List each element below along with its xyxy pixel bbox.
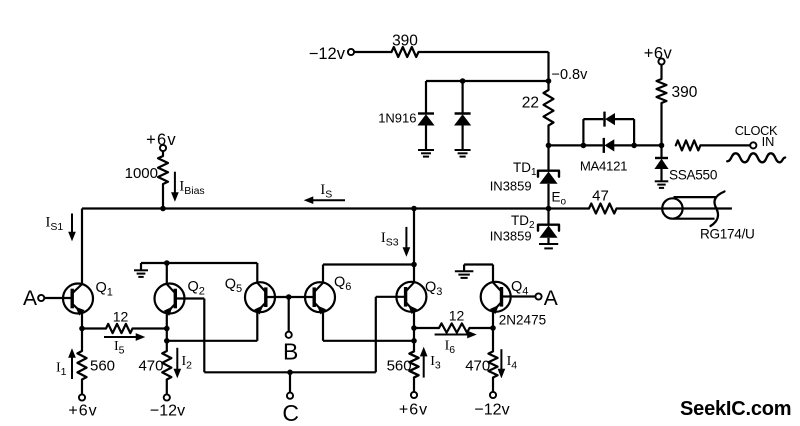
svg-text:B: B bbox=[283, 339, 298, 365]
svg-text:SSA550: SSA550 bbox=[669, 168, 718, 183]
svg-text:+6v: +6v bbox=[146, 131, 177, 149]
svg-text:A: A bbox=[544, 287, 558, 310]
svg-text:12: 12 bbox=[113, 309, 129, 325]
svg-text:390: 390 bbox=[392, 33, 418, 50]
svg-text:IN3859: IN3859 bbox=[490, 229, 532, 244]
svg-text:12: 12 bbox=[449, 308, 465, 324]
svg-text:MA4121: MA4121 bbox=[580, 159, 627, 174]
svg-text:390: 390 bbox=[672, 84, 698, 101]
svg-text:1N916: 1N916 bbox=[378, 111, 416, 126]
svg-text:−12v: −12v bbox=[150, 403, 185, 420]
svg-text:+6v: +6v bbox=[68, 403, 97, 420]
svg-text:560: 560 bbox=[90, 358, 115, 375]
svg-text:1000: 1000 bbox=[125, 165, 158, 182]
svg-text:SeekIC.com: SeekIC.com bbox=[680, 398, 791, 420]
svg-text:470: 470 bbox=[465, 358, 490, 375]
svg-text:IN3859: IN3859 bbox=[490, 179, 532, 194]
svg-text:560: 560 bbox=[387, 358, 412, 375]
svg-text:A: A bbox=[23, 287, 37, 310]
svg-text:IN: IN bbox=[762, 134, 775, 149]
svg-text:+6v: +6v bbox=[644, 45, 673, 63]
svg-text:−12v: −12v bbox=[309, 45, 346, 63]
svg-text:47: 47 bbox=[592, 188, 609, 205]
svg-text:RG174/U: RG174/U bbox=[700, 227, 755, 242]
svg-text:C: C bbox=[282, 400, 299, 426]
svg-text:470: 470 bbox=[138, 358, 163, 375]
svg-text:−0.8v: −0.8v bbox=[552, 67, 589, 83]
svg-text:2N2475: 2N2475 bbox=[499, 313, 546, 328]
svg-text:−12v: −12v bbox=[474, 402, 509, 419]
svg-text:22: 22 bbox=[522, 95, 539, 112]
svg-text:+6v: +6v bbox=[399, 402, 428, 419]
